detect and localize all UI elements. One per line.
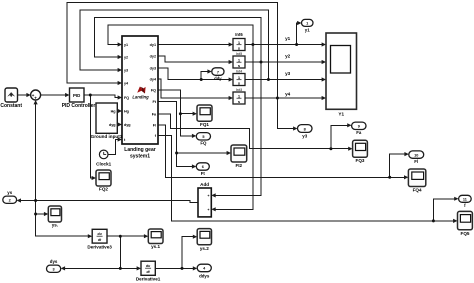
arrowhead into FQ5 [453,219,457,223]
arrowhead into PID [65,93,69,97]
wire Int5 out to scope Y1 input2 [245,61,323,63]
node FQ branch junction [179,112,182,115]
node f branch junction [432,219,435,222]
arrowhead left into outport ys [17,198,21,202]
arrowhead into FQ2 [92,176,96,180]
svg-text:dy4: dy4 [150,78,157,82]
arrowhead into landing dyg [118,122,122,126]
arrowhead left into outport dys [61,266,65,270]
outport oval 11 f [459,195,472,208]
svg-text:ddy: ddy [214,76,222,81]
svg-text:Int3: Int3 [236,88,242,92]
wire dy2 to Int5 [158,56,230,62]
derivative1 block [136,261,161,281]
arrowhead into oval10 [404,152,408,156]
svg-text:5: 5 [202,135,204,139]
arrowhead into oval6 [192,164,196,168]
svg-text:dyg: dyg [124,123,131,127]
svg-text:Landing gear: Landing gear [124,147,155,153]
svg-text:dy3: dy3 [150,67,156,71]
svg-text:y4: y4 [285,92,291,97]
wire ground input Hg to landing [117,110,118,112]
svg-text:Derivative3: Derivative3 [87,245,112,250]
arrowhead into FQ3 [348,147,352,151]
arrowhead into Derivative1 [137,266,141,270]
wire Int4 out to scope Y1 input3 [245,79,323,81]
node y3 loop junction [267,78,270,81]
arrowhead into oval8 [293,126,297,130]
svg-text:Y1: Y1 [338,112,344,117]
arrowhead into landing Hg [118,109,122,113]
svg-text:ys.: ys. [52,223,58,228]
wire y4 branch down to oval8 [277,98,294,129]
node y4 loop junction [276,97,279,100]
svg-text:Landing: Landing [132,94,149,99]
arrowhead into FI2 [227,151,231,155]
arrowhead into landing y3 [118,68,122,72]
wire dys to Derivative1 [120,267,137,269]
svg-text:Hg: Hg [111,110,116,114]
svg-text:3: 3 [53,268,55,272]
arrowhead into Y1 input3 [322,77,326,81]
arrowhead into Int3 [229,96,233,100]
svg-text:ys.1: ys.1 [151,244,160,249]
arrowhead left into Add bottom [211,207,215,211]
wire loop1 y1 feedback [108,25,253,44]
node ddys branch junction [181,267,184,270]
wire loop2 y2 feedback [95,18,261,63]
arrowhead into oval1 [297,21,301,25]
svg-text:Fa: Fa [356,130,362,135]
arrowhead into FQ4 [404,175,408,179]
arrowhead into Int5 [229,60,233,64]
constant block [0,88,22,109]
arrowhead into oval5 [192,134,196,138]
svg-text:+: + [207,208,209,212]
svg-text:7: 7 [217,70,219,74]
arrowhead into landing port8 [118,137,122,141]
arrowhead into landing y1 [118,42,122,46]
svg-text:1: 1 [306,22,308,26]
arrowhead left into Add top [211,193,215,197]
wire ground input dyg to landing [117,124,118,126]
add block [198,182,211,217]
wire f branch up to oval11 [433,199,454,221]
svg-text:9: 9 [358,125,360,129]
svg-text:FQ3: FQ3 [356,158,365,163]
scope FQ4 [408,169,425,193]
wire clock1 to landing port8 [108,140,119,155]
svg-text:8: 8 [304,127,306,131]
oval 8 y3 [298,125,313,139]
svg-text:Constant: Constant [0,103,22,109]
svg-text:+: + [207,194,209,198]
node Fl branch junction [388,176,391,179]
wire ys branch down to Derivative3 [36,201,89,237]
scope FQ5 [458,211,473,235]
node ddy tap junction [200,78,203,81]
wire ddys branch up to scope ys.2 [182,237,194,269]
wire Ft port drop to oval6 [158,102,193,167]
svg-text:+: + [34,96,37,101]
node PID output junction [89,94,92,97]
svg-text:Ft: Ft [201,171,206,176]
scope ys.2 [197,229,211,251]
arrowhead into oval11 [454,197,458,201]
wire Add output to outport ys [21,201,199,203]
node Fa branch junction [329,147,332,150]
wire ys branch to scope ys. [36,213,45,215]
node y2 loop junction [260,61,263,64]
node Ft branch junction [175,152,178,155]
wire dy4 to Int3 [158,79,230,98]
wire constant to sum [18,94,28,96]
outport oval 5 FQ [196,133,210,146]
wire Fa port route to scope FQ3 [158,114,349,149]
scope FQ3 [353,140,368,163]
arrowhead into Y1 input2 [322,60,326,64]
integrator Int4 [233,69,245,85]
wire y1 tap up to oval1 [297,23,298,45]
wire Int3 out to scope Y1 input4 [245,97,323,99]
svg-text:FQ1: FQ1 [200,122,209,127]
svg-text:Derivative1: Derivative1 [136,276,161,281]
arrowhead up into sum bottom [34,100,38,104]
wire loop4 y4 feedback [67,3,278,98]
scope FQ1 [197,105,212,127]
arrowhead into oval9 [347,123,351,127]
svg-text:y1: y1 [285,36,291,41]
node y1 oval tap junction [295,43,298,46]
wire ddy tap up to oval7 [201,72,208,80]
scope ys. [48,206,61,228]
integrator Int6 [233,32,245,51]
scope Y1 [326,33,357,117]
wire Ft branch to scope FI2 [177,152,227,154]
svg-text:dy1: dy1 [150,43,156,47]
wire Derivative1 out to oval4 ddys [155,267,193,269]
outport oval 9 Fa [352,122,366,135]
svg-text:y3: y3 [285,71,291,76]
wire dy1 to Int6 [158,44,230,46]
svg-text:y3: y3 [124,69,128,73]
sum block [31,90,41,101]
integrator Int3 [233,88,245,104]
svg-text:Ground input1: Ground input1 [91,134,123,139]
arrowhead into landing port5 [118,95,122,99]
svg-text:y2: y2 [285,54,291,59]
svg-text:FQ: FQ [200,141,207,146]
scope FQ2 [96,170,111,192]
svg-text:FQ: FQ [124,96,129,100]
svg-text:PID: PID [73,93,80,98]
svg-text:FQ5: FQ5 [461,231,470,236]
wire Fa branch up to oval9 [331,125,348,148]
arrowhead into Y1 input4 [322,96,326,100]
svg-text:10: 10 [414,153,418,157]
wire dys to outport3 [64,267,120,269]
wire feedback up into sum bottom [35,104,37,201]
svg-text:FQ2: FQ2 [99,187,108,192]
outport oval 1 y1 [302,19,314,32]
oval 7 ddy [212,68,224,81]
node ys feedback junction [34,199,37,202]
svg-text:11: 11 [463,198,467,202]
wire Fl port route to scope FQ4 [158,125,405,178]
svg-text:y2: y2 [124,56,128,60]
scope FI2 [231,145,247,168]
arrowhead into landing y4 [118,81,122,85]
outport oval 3 dys [47,259,61,272]
svg-text:6: 6 [202,165,204,169]
svg-text:ys: ys [7,190,12,195]
wire PID branch down to FQ2 [90,95,92,178]
outport oval 4 ddys [197,264,211,278]
svg-text:FQ: FQ [151,89,156,93]
wire Int6 out to scope Y1 input1 [245,44,323,46]
svg-text:Int5: Int5 [236,52,242,56]
svg-text:y3: y3 [302,133,307,138]
svg-text:Int4: Int4 [236,69,242,73]
arrowhead into Derivative3 [88,234,92,238]
clock1 [96,150,112,166]
arrowhead into scope ys.1 [144,234,148,238]
arrowhead into Int6 [229,42,233,46]
svg-text:dyg: dyg [109,123,116,127]
arrowhead into oval4 ddys [193,266,197,270]
PID controller U1 [62,88,96,109]
svg-text:Clock1: Clock1 [96,162,112,167]
arrowhead into Y1 input1 [322,42,326,46]
scope ys.1 [148,229,163,249]
outport oval 6 Ft [196,163,209,176]
svg-text:Add: Add [200,182,209,187]
arrowhead into oval7 [207,69,211,73]
derivative3 block [87,229,112,249]
outport oval 10 Fl [409,151,424,164]
svg-text:system1: system1 [130,154,150,160]
wire loop3 y3 feedback [80,10,268,79]
arrowhead into FQ1 [193,112,197,116]
svg-text:dy2: dy2 [150,55,156,59]
wire f port route to scope FQ5 [158,136,454,221]
wire y2 branch down to Add top input [216,62,262,195]
wire y1 branch down to Add bottom input [216,45,253,210]
svg-text:ys.2: ys.2 [200,246,209,251]
ground input1 subsystem [91,103,123,139]
svg-text:Fl: Fl [153,123,156,127]
integrator Int5 [233,52,245,68]
svg-text:2: 2 [9,199,11,203]
node dys branch junction [119,235,122,238]
svg-text:FI2: FI2 [235,163,242,168]
svg-text:FQ4: FQ4 [413,188,422,193]
node dys line junction [119,267,122,270]
svg-text:Hg: Hg [124,110,129,114]
wire sum to PID [40,94,66,96]
wire dys branch down [119,236,121,268]
node y1 loop junction [251,43,254,46]
svg-text:PID Controller: PID Controller [62,103,96,109]
wire FQ port to vertical drop [158,90,193,136]
wire Fl branch up to oval10 [390,154,405,177]
svg-text:Int6: Int6 [235,32,243,37]
svg-text:y1: y1 [305,28,310,33]
wire Derivative3 out to scope ys.1 [107,235,145,237]
svg-text:dys: dys [50,259,58,264]
wire dy3 to Int4 [158,68,230,80]
node ys scope junction [34,213,37,216]
arrowhead into scope ys. [44,212,48,216]
arrowhead into scope ys.2 [193,235,197,239]
arrowhead into Int4 [229,77,233,81]
arrowhead into sum [26,93,30,97]
wire FQ branch to scope FQ1 [180,113,193,115]
svg-text:Fl: Fl [414,159,418,164]
wire PID to landing port5 [84,95,119,98]
outport oval 2 ys [3,190,17,203]
landing gear system1 subsystem [122,36,158,160]
arrowhead into landing y2 [118,55,122,59]
svg-text:y1: y1 [124,43,128,47]
svg-text:ddys: ddys [199,273,210,278]
